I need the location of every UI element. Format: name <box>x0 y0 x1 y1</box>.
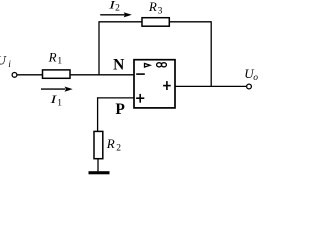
op-amp U1 <box>134 60 175 108</box>
svg-text:2: 2 <box>115 4 120 14</box>
op-amp plus (non-inverting input mark) <box>136 94 144 103</box>
svg-text:P: P <box>115 101 125 118</box>
wire: non-inverting input horizontal <box>97 97 134 99</box>
arrow I1 (input current) <box>41 87 73 92</box>
resistor R1 <box>43 70 71 78</box>
resistor R3 <box>142 18 169 27</box>
svg-text:o: o <box>253 73 258 83</box>
svg-text:3: 3 <box>158 6 163 16</box>
wire: R1 to op-amp inverting input <box>70 74 134 76</box>
wire: vertical from + input down to R2 <box>97 97 99 131</box>
wire: op-amp output to output terminal <box>175 85 247 87</box>
svg-text:R: R <box>106 136 115 151</box>
wire: top feedback left segment to R3 <box>98 21 142 23</box>
wire: feedback left vertical (node N up to top wire) <box>98 22 100 75</box>
wire: top feedback right segment from R3 <box>169 21 211 23</box>
svg-text:R: R <box>148 0 157 14</box>
op-amp gain triangle <box>145 63 151 67</box>
ground <box>89 171 110 174</box>
wire: input terminal to R1 <box>17 74 43 76</box>
svg-text:N: N <box>113 57 124 74</box>
input terminal circle <box>12 73 17 78</box>
arrow I2 (current into feedback) <box>100 12 132 17</box>
svg-text:2: 2 <box>116 143 121 153</box>
op-amp minus (inverting input mark) <box>136 73 145 75</box>
svg-text:1: 1 <box>57 56 62 66</box>
svg-text:R: R <box>48 50 57 65</box>
resistor R2 <box>94 131 103 158</box>
op-amp infinity symbol <box>157 63 167 67</box>
output terminal circle <box>247 84 252 89</box>
op-amp plus (output polarity mark) <box>163 81 171 90</box>
svg-text:1: 1 <box>57 99 62 109</box>
wire: feedback right vertical down to output <box>210 21 212 86</box>
svg-text:i: i <box>8 60 11 70</box>
wire: R2 bottom to ground <box>97 159 99 172</box>
svg-text:I: I <box>49 94 57 107</box>
